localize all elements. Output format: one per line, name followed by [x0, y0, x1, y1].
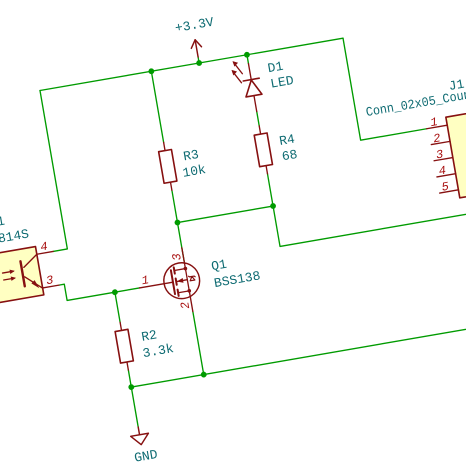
connector J1 body: [446, 104, 466, 198]
wire D1 bottom to R4: [257, 112, 259, 126]
wire R3 top: [151, 71, 163, 142]
gate pin: [139, 282, 173, 288]
channel bar middle: [176, 278, 177, 284]
transistor Q1: [134, 246, 205, 320]
wire gate row junction to Q1 gate: [115, 288, 140, 292]
svg-text:Q1: Q1: [210, 257, 228, 274]
middle stub with arrow: [176, 280, 187, 282]
circle: [161, 260, 202, 301]
svg-text:R3: R3: [182, 147, 200, 164]
wire left riser to opto pin 4: [26, 91, 68, 252]
LED D1: [230, 57, 265, 114]
opto pin 4: [37, 251, 53, 254]
wire R2 bottom: [128, 370, 131, 387]
wire Q1 drain: [177, 223, 184, 264]
svg-text:10k: 10k: [181, 162, 207, 181]
wire R4 bottom: [267, 174, 273, 206]
opto-isolator U1 body: [0, 247, 44, 304]
wire R2 top drop: [115, 292, 120, 322]
svg-text:3: 3: [170, 252, 185, 261]
svg-text:LED: LED: [269, 73, 295, 92]
svg-text:R2: R2: [140, 327, 158, 344]
opto light arrows: [2, 269, 16, 282]
junction bottom row Q1 source: [200, 371, 207, 378]
drain stub: [174, 269, 185, 271]
power symbol +3.3V arrow: [190, 39, 203, 58]
resistor R3: [157, 141, 178, 191]
svg-text:D1: D1: [267, 59, 285, 76]
J1 pin 3: [434, 158, 453, 161]
resistor R4: [253, 125, 274, 175]
source stub: [178, 291, 189, 293]
opto phototransistor: [20, 254, 43, 291]
stub dots: [183, 266, 187, 270]
svg-text:U1: U1: [0, 213, 6, 230]
junction gate row R2: [112, 289, 119, 296]
junction drain node R4: [270, 203, 277, 210]
drain pin: [182, 248, 186, 269]
drain-source vertical line: [185, 269, 189, 291]
wire top +3.3V rail: [40, 38, 343, 90]
wire +3.3V stub: [198, 57, 199, 63]
junction bottom row GND: [128, 384, 135, 391]
J1 pin 4: [437, 174, 456, 177]
svg-text:4: 4: [39, 240, 48, 255]
svg-text:3: 3: [435, 147, 444, 162]
wire Q1 source to bottom row: [193, 312, 204, 375]
gate bar: [171, 270, 175, 294]
body diode: [189, 275, 196, 278]
wire GND drop: [131, 387, 138, 427]
wire D1 top stub: [247, 55, 249, 64]
J1 pin 5: [440, 190, 459, 193]
source pin: [189, 291, 193, 312]
J1 pin 2: [431, 141, 450, 144]
wire bottom row long: [131, 315, 466, 388]
wire drain row to R4 column: [177, 206, 273, 223]
channel bar bottom: [178, 290, 179, 296]
junction rail R3: [148, 68, 155, 75]
svg-text:5: 5: [441, 180, 450, 195]
ground symbol: [129, 426, 150, 447]
svg-text:3: 3: [45, 273, 54, 288]
channel bar top: [174, 267, 175, 273]
svg-text:4: 4: [438, 164, 447, 179]
svg-text:68: 68: [281, 147, 299, 164]
opto pin 3: [43, 285, 59, 288]
svg-text:+3.3V: +3.3V: [174, 15, 215, 36]
J1 pin 1: [427, 125, 448, 129]
junction rail D1: [244, 51, 251, 58]
wire R3 bottom to drain node: [172, 190, 178, 222]
svg-text:GND: GND: [133, 447, 159, 466]
junction drain node R3: [174, 219, 181, 226]
wire jog below R4 to long right wire: [273, 162, 466, 246]
svg-text:1: 1: [429, 115, 438, 130]
svg-text:2: 2: [432, 131, 441, 146]
wire opto pin 3 jog to gate row: [59, 276, 115, 301]
resistor R2: [114, 321, 135, 371]
junction rail +3.3V: [196, 60, 203, 67]
wire rail right riser to J1 pin 1: [343, 27, 427, 140]
svg-text:2: 2: [178, 301, 193, 310]
svg-text:1: 1: [141, 273, 150, 288]
